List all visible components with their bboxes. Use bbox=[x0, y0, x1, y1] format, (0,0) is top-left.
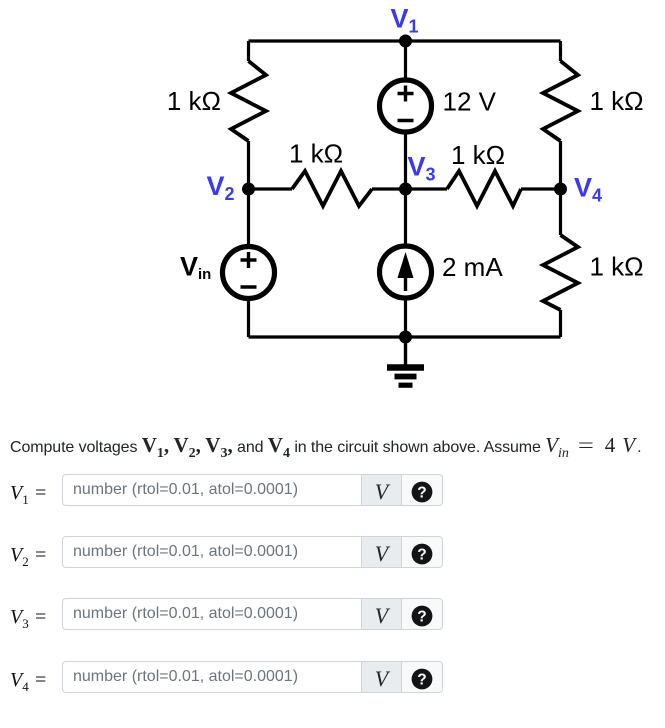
svg-text:1 kΩ: 1 kΩ bbox=[590, 86, 644, 116]
resistor 1k right top vertical bbox=[543, 61, 578, 141]
wire V1 to 12V source bbox=[404, 41, 407, 80]
node V1 junction dot bbox=[399, 35, 412, 48]
svg-text:?: ? bbox=[417, 609, 426, 626]
resistor 1k left vertical bbox=[231, 61, 266, 141]
wire bottom rail bbox=[249, 335, 561, 338]
svg-text:V4: V4 bbox=[574, 173, 602, 206]
node V2 junction dot bbox=[242, 183, 255, 196]
node V3 junction dot bbox=[399, 183, 412, 196]
wire 12V source to V3 bbox=[404, 132, 407, 189]
svg-text:Vin: Vin bbox=[180, 252, 211, 284]
wire middle rail stub V3-V4 bbox=[406, 187, 448, 190]
resistor 1k horizontal V3-V4 bbox=[447, 171, 521, 206]
resistor 1k horizontal V2-V3 bbox=[292, 171, 372, 206]
svg-text:V1: V1 bbox=[391, 4, 419, 37]
svg-text:1 kΩ: 1 kΩ bbox=[590, 252, 644, 282]
wire right branch top stub bbox=[559, 41, 562, 61]
wire V2 to Vin source bbox=[247, 189, 250, 246]
svg-text:1 kΩ: 1 kΩ bbox=[167, 86, 221, 116]
svg-text:1 kΩ: 1 kΩ bbox=[289, 139, 343, 169]
ground bbox=[387, 337, 424, 385]
svg-text:?: ? bbox=[417, 672, 426, 689]
svg-text:V3: V3 bbox=[408, 152, 436, 185]
voltage source 12V bbox=[380, 80, 432, 132]
wire left branch top stub bbox=[247, 41, 250, 61]
svg-text:?: ? bbox=[417, 485, 426, 502]
wire middle rail stub V2-V3 bbox=[249, 187, 293, 190]
wire right branch middle stub bbox=[559, 141, 562, 235]
voltage source Vin bbox=[223, 247, 275, 299]
svg-text:V2: V2 bbox=[207, 171, 235, 204]
wire left branch lower stub bbox=[247, 141, 250, 189]
svg-text:2 mA: 2 mA bbox=[442, 252, 503, 282]
node V4 junction dot bbox=[554, 183, 567, 196]
wire V3 to current source bbox=[404, 189, 407, 246]
wire right branch bottom stub bbox=[559, 310, 562, 337]
current source 2mA bbox=[380, 246, 432, 298]
svg-text:?: ? bbox=[417, 547, 426, 564]
resistor 1k right bottom vertical bbox=[543, 235, 578, 310]
node ground junction dot bbox=[399, 331, 412, 344]
svg-text:12 V: 12 V bbox=[443, 87, 497, 117]
wire current source to bottom rail bbox=[404, 298, 407, 337]
wire Vin source to bottom rail bbox=[247, 299, 250, 337]
wire top rail V1 bbox=[249, 39, 561, 42]
svg-text:1 kΩ: 1 kΩ bbox=[451, 140, 505, 170]
